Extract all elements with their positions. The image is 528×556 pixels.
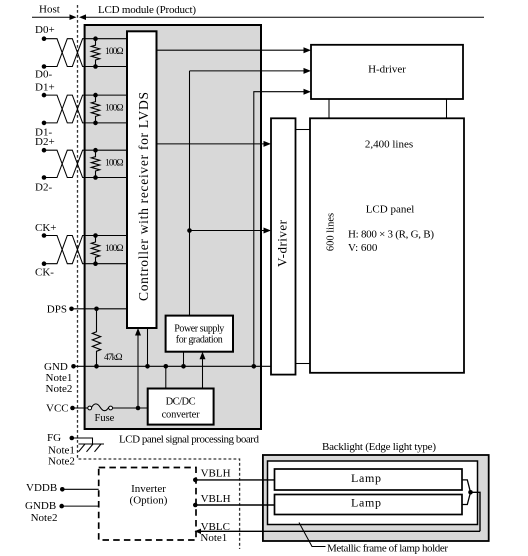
svg-text:Controller with receiver for L: Controller with receiver for LVDS	[136, 92, 151, 301]
node junction Hdriver-GND riser	[252, 364, 257, 369]
svg-text:VBLH: VBLH	[201, 493, 231, 505]
svg-text:Note2: Note2	[48, 455, 75, 467]
wire twisted pair D1 line B	[44, 95, 127, 123]
svg-text:VDDB: VDDB	[26, 482, 57, 494]
svg-text:D1+: D1+	[35, 81, 55, 93]
wire GNDB to inverter	[62, 505, 99, 507]
node junction 47k/GND	[94, 364, 99, 369]
svg-text:DPS: DPS	[47, 304, 67, 316]
wire twisted pair D1 line A	[44, 95, 127, 123]
LCD panel signal processing board (gray module box)	[85, 25, 261, 429]
svg-text:Note1: Note1	[200, 532, 227, 544]
node FG terminal	[47, 432, 74, 444]
svg-text:VCC: VCC	[46, 402, 69, 414]
wire GND riser to H-driver (3)	[254, 89, 311, 367]
svg-text:100Ω: 100Ω	[105, 47, 124, 57]
power supply U2: Power supply for gradation	[166, 316, 233, 352]
node D1- terminal	[35, 121, 52, 139]
node junction powersupply-GND	[181, 364, 186, 369]
metallic frame outer box	[263, 455, 489, 541]
svg-text:(Option): (Option)	[130, 495, 168, 507]
wire VBLH1 inverter to lamp1	[193, 468, 275, 483]
wire lamp common to frame/VBLC	[471, 492, 481, 531]
svg-text:47kΩ: 47kΩ	[104, 353, 123, 363]
svg-text:Host: Host	[39, 4, 60, 16]
node junction VCC branch	[136, 406, 141, 411]
svg-text:Fuse: Fuse	[95, 413, 115, 424]
svg-text:Note2: Note2	[46, 383, 73, 395]
svg-text:FG: FG	[47, 432, 61, 444]
wire host extent line with arrow	[32, 14, 77, 20]
wire twisted pair D2 line B	[44, 150, 127, 177]
wire power riser to H-driver (2)	[190, 68, 312, 74]
wire V-driver to panel top connector	[296, 129, 311, 131]
node D2+ terminal	[35, 136, 55, 153]
wire H-driver to panel connector right	[446, 99, 448, 118]
svg-text:for gradation: for gradation	[176, 335, 223, 346]
svg-text:Power supply: Power supply	[174, 323, 224, 334]
wire controller GND pin	[147, 328, 149, 366]
svg-text:V: 600: V: 600	[348, 242, 378, 254]
resistor R 47kohm	[92, 309, 122, 367]
resistor 100ohm termination for D2	[91, 148, 123, 180]
svg-text:VBLH: VBLH	[201, 468, 231, 480]
node D0+ terminal	[35, 24, 55, 41]
svg-text:100Ω: 100Ω	[105, 244, 124, 254]
node GNDB terminal	[25, 500, 64, 512]
node VCC terminal	[46, 402, 75, 414]
resistor 100ohm termination for D0	[91, 36, 123, 68]
svg-text:2,400 lines: 2,400 lines	[365, 138, 413, 150]
wire lamp1 right terminal	[462, 480, 471, 492]
svg-text:H-driver: H-driver	[368, 63, 406, 75]
svg-text:DC/DC: DC/DC	[166, 397, 196, 408]
svg-text:H: 800 × 3 (R, G, B): H: 800 × 3 (R, G, B)	[348, 229, 434, 241]
wire fuse to DC/DC	[113, 407, 148, 409]
wire twisted pair D0 line A	[44, 39, 127, 67]
svg-text:LCD panel signal processing bo: LCD panel signal processing board	[119, 434, 260, 446]
wire twisted pair CK line B	[44, 236, 127, 264]
wire power tap to V-driver	[190, 228, 272, 234]
LCD panel	[310, 118, 464, 372]
wire power supply output riser	[189, 71, 191, 316]
lamp LA1	[275, 469, 463, 490]
node GND terminal	[44, 361, 76, 373]
wire twisted pair D2 line A	[44, 150, 127, 177]
svg-text:Metallic frame of lamp holder: Metallic frame of lamp holder	[327, 542, 448, 554]
svg-text:D0+: D0+	[35, 24, 55, 36]
fuse F1	[88, 404, 115, 424]
svg-text:D2+: D2+	[35, 136, 55, 148]
V-driver U5	[271, 118, 296, 374]
svg-text:LCD panel: LCD panel	[366, 204, 415, 216]
node junction lamp returns	[468, 490, 473, 495]
dc/dc converter U3: DC/DC converter	[148, 389, 214, 425]
wire VBLC return from frame to inverter	[195, 521, 481, 534]
svg-text:converter: converter	[162, 409, 201, 420]
resistor 100ohm termination for D1	[91, 93, 123, 125]
wire VDDB to inverter	[62, 488, 98, 490]
svg-text:CK+: CK+	[35, 222, 56, 234]
wire lamp2 right terminal	[462, 492, 471, 504]
node metallic frame label with pointer	[299, 523, 448, 555]
wire VBLH2 inverter to lamp2	[193, 493, 275, 507]
node junction controller-GND	[145, 364, 150, 369]
svg-text:100Ω: 100Ω	[105, 158, 124, 168]
inverter U6: Inverter (Option) dashed box	[99, 468, 196, 541]
wire DC/DC GND pin	[165, 366, 167, 388]
wire host/module dashed boundary	[78, 5, 240, 549]
svg-text:Inverter: Inverter	[131, 483, 166, 495]
node junction DPS/47k	[94, 307, 99, 312]
svg-text:600 lines: 600 lines	[326, 213, 337, 251]
svg-text:V-driver: V-driver	[274, 219, 289, 267]
wire FG to chassis ground	[72, 438, 93, 444]
svg-text:GNDB: GNDB	[25, 500, 56, 512]
svg-text:Lamp: Lamp	[351, 471, 381, 485]
lamp holder inner box	[268, 461, 478, 525]
node CK+ terminal	[35, 222, 56, 238]
wire controller to V-driver	[157, 141, 272, 147]
svg-text:100Ω: 100Ω	[105, 104, 124, 114]
wire DC/DC to power supply with arrow	[200, 352, 206, 389]
svg-text:Backlight (Edge light type): Backlight (Edge light type)	[322, 441, 436, 453]
H-driver U4	[311, 45, 463, 99]
node D1+ terminal	[35, 81, 55, 97]
svg-text:CK-: CK-	[35, 267, 54, 279]
node CK- terminal	[35, 261, 54, 278]
wire LCD module extent line with arrow	[79, 14, 484, 20]
wire GND rail to V-driver	[74, 365, 272, 367]
wire controller to H-driver (1)	[157, 47, 312, 53]
node VDDB terminal	[26, 482, 65, 494]
controller U1: Controller with receiver for LVDS	[127, 31, 157, 328]
wire twisted pair D0 line B	[44, 39, 127, 67]
ground chassis symbol	[79, 444, 105, 452]
node D2- terminal	[35, 175, 52, 194]
svg-text:D2-: D2-	[35, 182, 52, 194]
svg-text:VBLC: VBLC	[201, 521, 230, 533]
wire DPS to controller	[72, 308, 128, 310]
resistor 100ohm termination for CK	[91, 233, 123, 266]
node junction riser/V-driver tap	[187, 228, 192, 233]
wire VCC riser to controller with arrow	[135, 328, 141, 408]
svg-text:D0-: D0-	[35, 69, 52, 81]
wire V-driver to panel bottom connector	[296, 363, 311, 365]
svg-text:Lamp: Lamp	[351, 496, 381, 510]
wire H-driver to panel connector left	[328, 99, 330, 118]
node junction DCDC-GND	[164, 364, 169, 369]
lamp LA2	[275, 495, 463, 515]
svg-text:Note2: Note2	[31, 512, 58, 524]
wire power supply GND pin	[183, 352, 185, 367]
node D0- terminal	[35, 64, 52, 80]
wire twisted pair CK line A	[44, 236, 127, 264]
wire VCC to fuse	[73, 407, 89, 409]
svg-text:LCD module (Product): LCD module (Product)	[98, 4, 196, 16]
node DPS terminal	[47, 304, 74, 316]
